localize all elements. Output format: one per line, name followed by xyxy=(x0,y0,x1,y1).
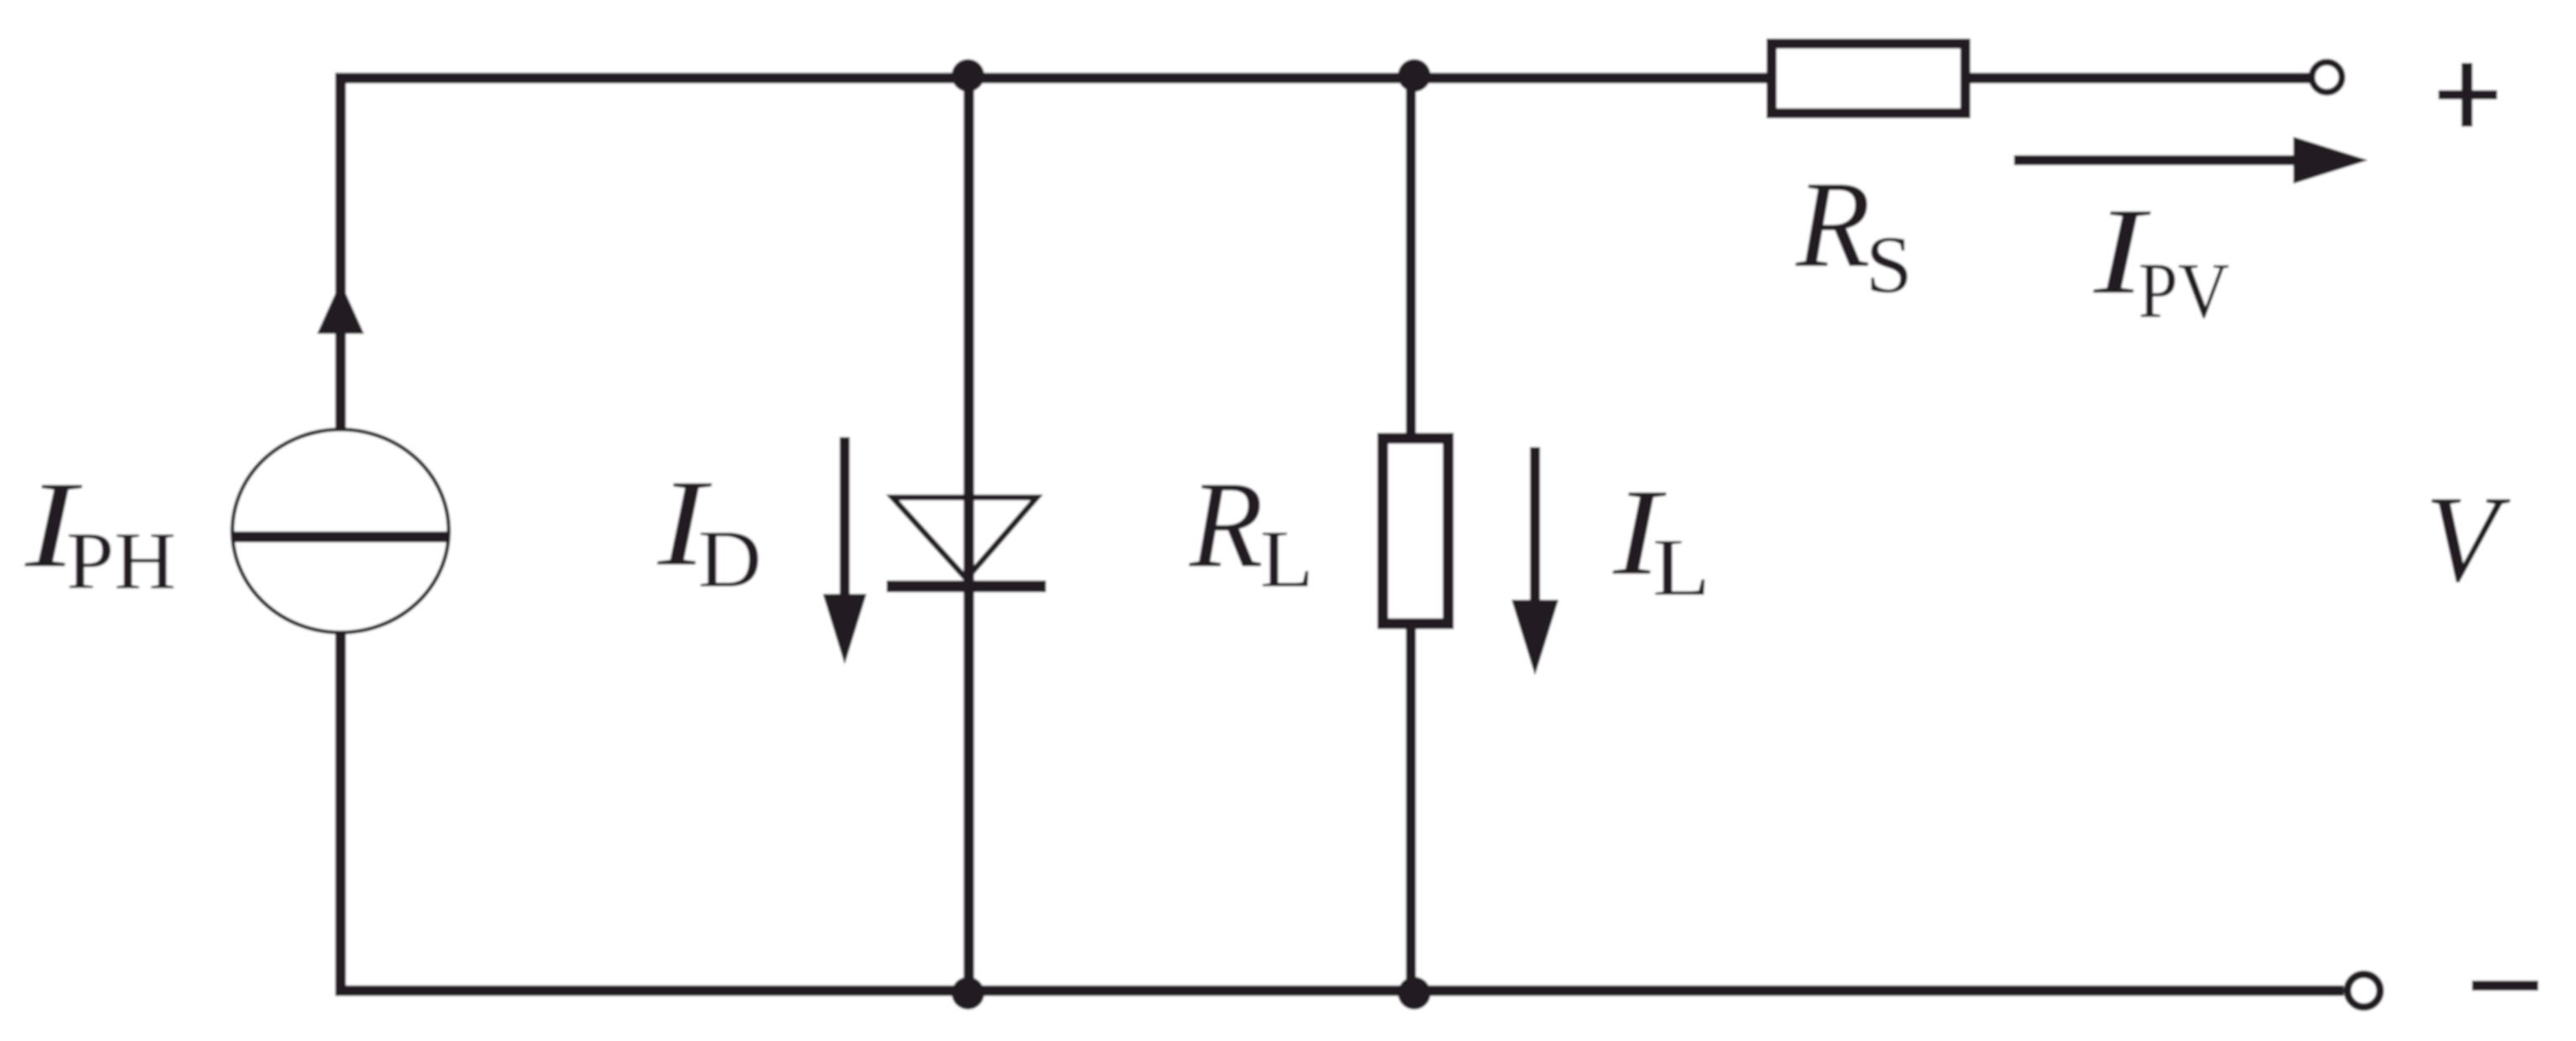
svg-text:L: L xyxy=(1652,523,1710,613)
label R_S xyxy=(1795,156,1912,310)
node C junction dot bottom diode xyxy=(952,977,985,1010)
wire load branch vertical bottom xyxy=(1406,624,1416,991)
wire diode branch vertical xyxy=(964,78,975,991)
node A junction dot top diode xyxy=(952,60,985,92)
svg-text:R: R xyxy=(1189,456,1263,594)
wire bottom-left L (source bottom to bottom bus) xyxy=(341,632,2344,991)
node D junction dot bottom load xyxy=(1398,977,1431,1010)
arrow I_L (load current) xyxy=(1512,447,1559,675)
arrow I_PV (output current) xyxy=(2014,137,2368,184)
wire load branch vertical top xyxy=(1406,78,1416,438)
label I_PH xyxy=(24,456,176,606)
diode D cathode bar xyxy=(887,580,1046,592)
resistor R_S body xyxy=(1772,44,1965,113)
diode D triangle xyxy=(892,497,1037,579)
current source I_PH circle xyxy=(232,429,449,632)
svg-text:PH: PH xyxy=(66,516,176,606)
terminal - (bottom output) xyxy=(2348,975,2381,1007)
wire top-left L (node + bus from source to Rs) xyxy=(341,78,1772,429)
svg-text:PV: PV xyxy=(2138,247,2230,335)
label I_D xyxy=(657,455,762,605)
wire Rs to + terminal xyxy=(1970,73,2310,84)
arrow I_D (current through diode) xyxy=(823,437,866,664)
terminal + (top output) xyxy=(2312,62,2342,92)
arrow up on source branch xyxy=(317,282,364,334)
label R_L xyxy=(1189,456,1314,605)
svg-text:L: L xyxy=(1260,514,1314,605)
node B junction dot top load xyxy=(1398,60,1431,92)
plus sign xyxy=(2438,63,2497,127)
svg-text:D: D xyxy=(698,514,762,605)
svg-text:R: R xyxy=(1795,156,1871,294)
resistor R_L body xyxy=(1383,439,1449,624)
current source chord bar xyxy=(232,532,449,543)
minus sign xyxy=(2472,981,2538,991)
svg-text:S: S xyxy=(1866,220,1912,310)
label I_PV xyxy=(2093,183,2230,335)
label I_L xyxy=(1612,464,1710,613)
svg-text:V: V xyxy=(2425,471,2511,608)
